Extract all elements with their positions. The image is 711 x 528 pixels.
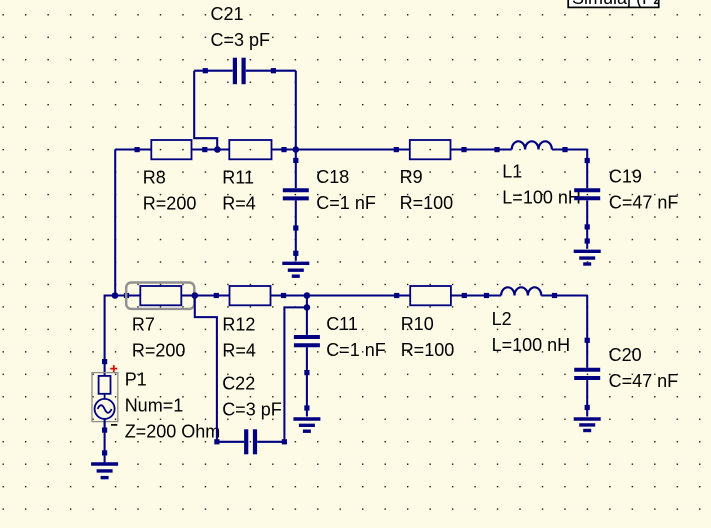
- label P1: [125, 369, 147, 389]
- svg-text:C=3 pF: C=3 pF: [222, 399, 282, 419]
- value C=1 nF: [316, 193, 376, 213]
- wire: node to R9: [296, 147, 410, 152]
- value Z=200 Ohm: [125, 421, 221, 441]
- svg-text:C=3 pF: C=3 pF: [211, 30, 271, 50]
- svg-text:R12: R12: [222, 315, 255, 335]
- ground under C20: [574, 419, 601, 431]
- label L2: [492, 309, 512, 329]
- svg-text:L1: L1: [502, 162, 522, 182]
- svg-text:R9: R9: [400, 167, 423, 187]
- capacitor C21: [194, 58, 296, 84]
- svg-text:R10: R10: [401, 314, 434, 334]
- node junction between R8 and R11: [214, 146, 221, 153]
- label C11: [326, 314, 358, 334]
- ground under C11: [293, 419, 320, 431]
- svg-text:C=47 nF: C=47 nF: [609, 192, 679, 212]
- wire: R7 to junction: [181, 294, 195, 296]
- label R7: [132, 315, 155, 335]
- svg-text:Z=200 Ohm: Z=200 Ohm: [125, 421, 221, 441]
- resistor R8: [135, 140, 192, 159]
- wire: R8 to R11: [192, 147, 230, 152]
- wire: R10 to L2: [451, 293, 501, 298]
- resistor R7: [140, 286, 181, 305]
- node junction after R7: [192, 292, 199, 299]
- svg-text:R8: R8: [143, 167, 166, 187]
- svg-text:C=1 nF: C=1 nF: [326, 340, 386, 360]
- label C22: [222, 373, 255, 393]
- node junction row2 at C11 tap: [304, 292, 311, 299]
- value R=4: [222, 341, 256, 361]
- label R9: [400, 167, 423, 187]
- svg-text:L=100 nH: L=100 nH: [492, 335, 571, 355]
- svg-text:P1: P1: [125, 369, 147, 389]
- inductor L1: [512, 141, 552, 149]
- resistor R9: [410, 140, 451, 159]
- wire: row1 left horizontal to R8: [115, 148, 151, 150]
- node junction C11/C22: [304, 304, 311, 311]
- label C21: [211, 4, 244, 24]
- svg-text:C20: C20: [609, 345, 642, 365]
- svg-text:R=4: R=4: [222, 193, 256, 213]
- svg-text:C21: C21: [211, 4, 244, 24]
- resistor R11: [229, 140, 271, 159]
- label R8: [143, 167, 166, 187]
- svg-text:R=100: R=100: [400, 193, 454, 213]
- capacitor C19: [574, 158, 600, 249]
- value L=100 nH: [502, 188, 581, 208]
- wire: C21 right branch down to node: [295, 71, 297, 150]
- svg-text:R=200: R=200: [132, 341, 186, 361]
- value C=47 nF: [609, 371, 679, 391]
- ground under C18: [282, 263, 309, 276]
- label C20: [609, 345, 642, 365]
- svg-text:C19: C19: [609, 166, 642, 186]
- node junction row2 left: [112, 292, 119, 299]
- wire: P1 to ground: [102, 422, 107, 463]
- svg-text:R7: R7: [132, 315, 155, 335]
- toolbar button box (clipped at top): [568, 0, 669, 8]
- label C18: [316, 167, 349, 187]
- svg-text:Num=1: Num=1: [125, 395, 184, 415]
- svg-text:R=4: R=4: [222, 341, 256, 361]
- capacitor C20: [574, 370, 600, 417]
- capacitor C11: [294, 307, 320, 416]
- wire: node down to second junction: [306, 296, 308, 308]
- wire: R11 to node: [272, 147, 296, 152]
- wire: junction to R12: [195, 293, 230, 298]
- wire: junction jog down to P1: [102, 296, 115, 376]
- node junction at C18 tap: [293, 146, 300, 153]
- svg-text:R=100: R=100: [401, 340, 455, 360]
- capacitor C22: [214, 429, 287, 454]
- wire: L1 to C19 corner: [552, 147, 587, 188]
- label R10: [401, 314, 434, 334]
- value R=200: [132, 341, 186, 361]
- label R12: [222, 315, 255, 335]
- svg-text:C=47 nF: C=47 nF: [609, 371, 679, 391]
- svg-text:L=100 nH: L=100 nH: [502, 188, 581, 208]
- value R=200: [143, 193, 197, 213]
- wire: C22 right branch up: [284, 307, 307, 441]
- svg-text:R11: R11: [222, 167, 254, 187]
- svg-text:Simulaj (F2): Simulaj (F2): [572, 0, 669, 8]
- wire: left vertical bus from row1 down to row2 junction: [114, 150, 116, 296]
- svg-text:C18: C18: [316, 167, 349, 187]
- value L=100 nH: [492, 335, 571, 355]
- value Num=1: [125, 395, 184, 415]
- svg-text:R=200: R=200: [143, 193, 197, 213]
- label R11: [222, 167, 254, 187]
- value R=100: [400, 193, 454, 213]
- wire: row2 junction to R7: [115, 293, 140, 298]
- resistor R10: [410, 286, 451, 305]
- selection highlight around R7: [126, 283, 194, 309]
- ground under C19: [574, 251, 601, 264]
- svg-text:C=1 nF: C=1 nF: [316, 193, 376, 213]
- wire: C21 left branch riser: [194, 71, 217, 150]
- svg-text:C22: C22: [222, 373, 255, 393]
- value R=100: [401, 340, 455, 360]
- label C19: [609, 166, 642, 186]
- svg-text:C11: C11: [326, 314, 358, 334]
- value C=3 pF: [222, 399, 282, 419]
- wire: node to R10: [307, 293, 410, 298]
- value C=47 nF: [609, 192, 679, 212]
- label L1: [502, 162, 522, 182]
- value R=4: [222, 193, 256, 213]
- ground under P1: [91, 464, 118, 478]
- resistor R12: [230, 286, 271, 305]
- inductor L2: [501, 287, 541, 295]
- wire: R9 to L1: [451, 147, 512, 152]
- value C=1 nF: [326, 340, 386, 360]
- wire: R12 to node: [271, 293, 307, 298]
- wire: L2 to C20 corner: [541, 293, 590, 368]
- capacitor C18: [283, 150, 309, 261]
- svg-text:L2: L2: [492, 309, 512, 329]
- power source P1: [92, 365, 118, 430]
- value C=3 pF: [211, 30, 271, 50]
- wire: C22 left branch drop: [195, 296, 217, 442]
